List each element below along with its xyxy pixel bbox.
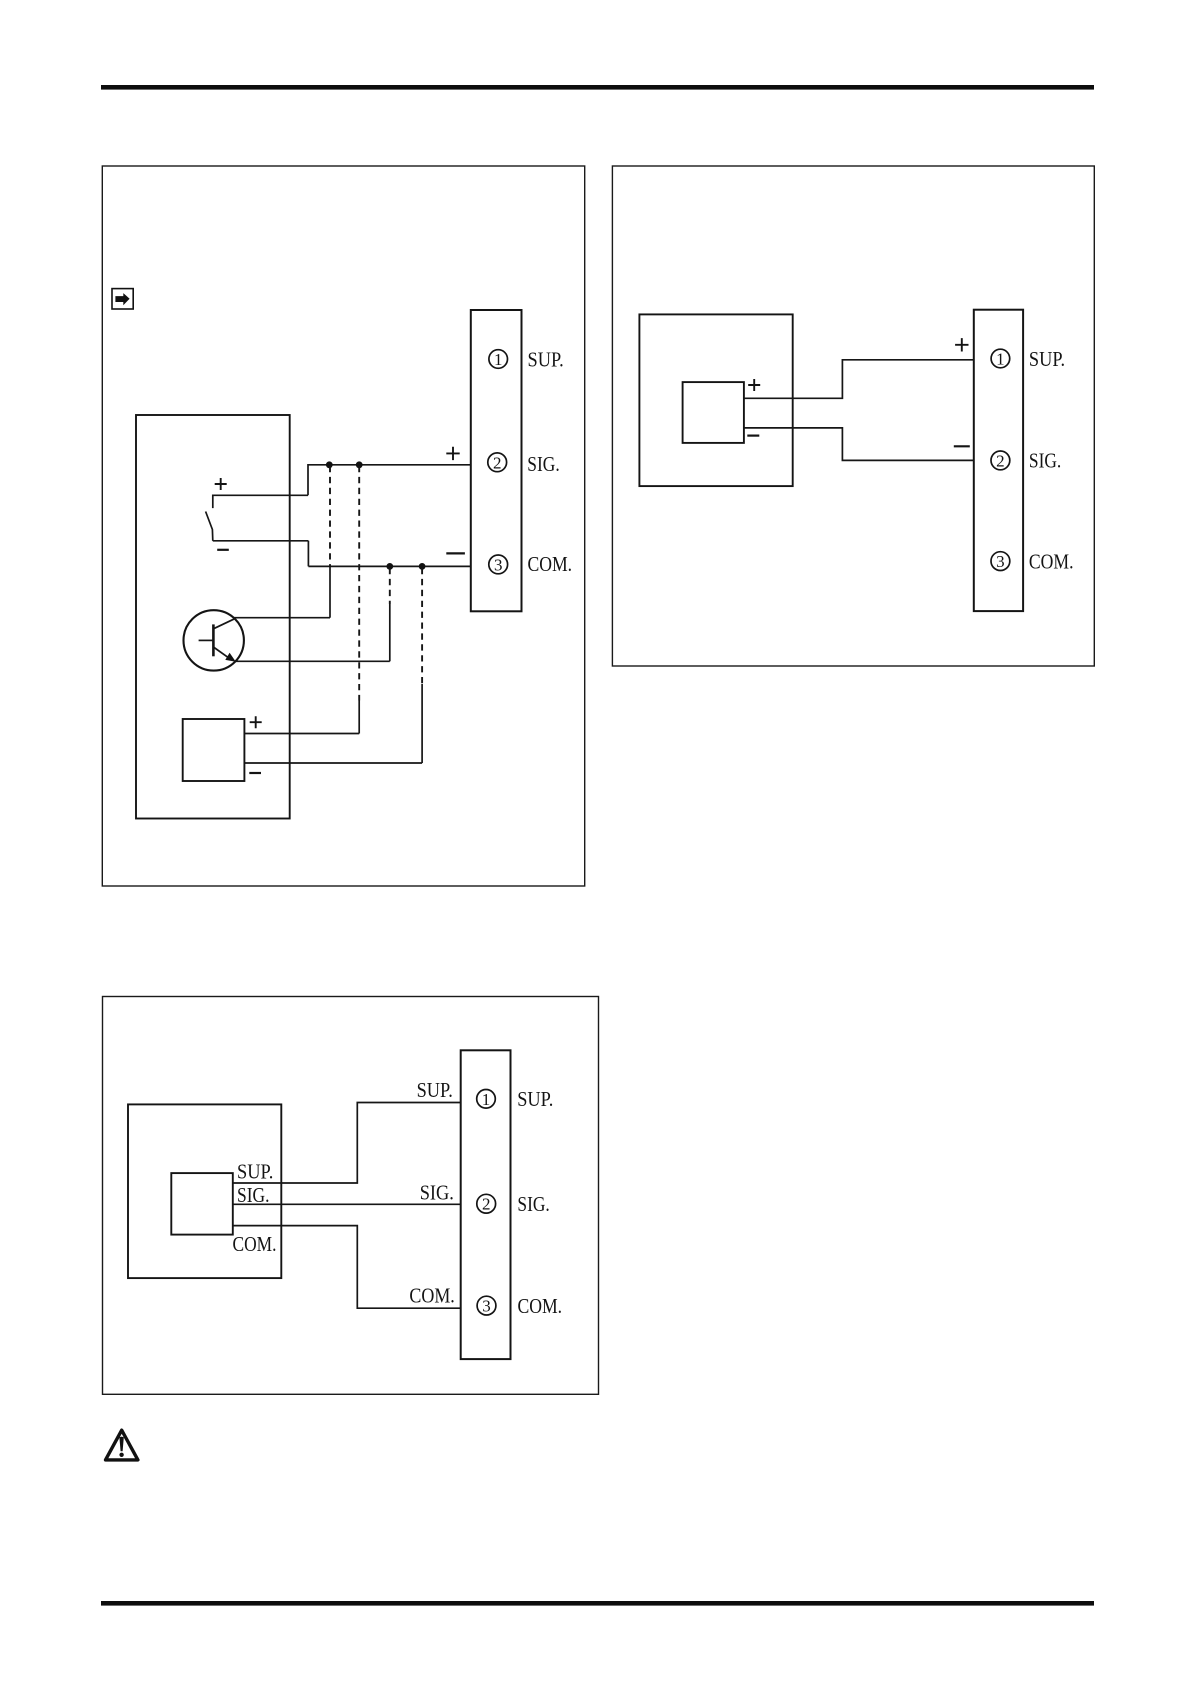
svg-text:SUP.: SUP.	[517, 1087, 553, 1111]
bottom rule	[101, 1601, 1094, 1606]
terminal 2 circled	[991, 451, 1010, 470]
warning triangle icon	[106, 1430, 138, 1460]
wire: SIG line to terminal 2	[308, 465, 471, 496]
svg-text:3: 3	[494, 555, 503, 574]
top rule	[101, 85, 1094, 90]
plus sign at terminal 1	[955, 338, 968, 351]
svg-text:1: 1	[494, 350, 503, 369]
figure frame: 2-wire connection diagram box	[102, 166, 584, 886]
wire: source - lead	[244, 762, 422, 764]
terminal block TB2	[974, 310, 1023, 611]
svg-text:COM.: COM.	[409, 1284, 454, 1308]
terminal 1 circled	[477, 1090, 496, 1109]
svg-text:SUP.: SUP.	[237, 1160, 273, 1184]
svg-text:SIG.: SIG.	[527, 452, 559, 476]
node junction dot B	[356, 461, 363, 468]
transmitter element square	[683, 382, 744, 443]
terminal 2 circled	[488, 453, 507, 472]
wire: SIG to terminal 2	[233, 1203, 461, 1205]
wire: collector riser	[329, 566, 331, 617]
voltage source B1	[183, 719, 245, 781]
svg-text:2: 2	[996, 451, 1005, 470]
terminal block TB1	[471, 310, 522, 611]
switch plus sign	[215, 478, 227, 490]
wire: collector to riser	[234, 617, 330, 619]
terminal 3 circled	[477, 1296, 496, 1315]
wire: element + to terminal 1	[744, 360, 974, 399]
terminal 3 circled	[991, 552, 1010, 571]
svg-text:SUP.: SUP.	[417, 1078, 453, 1102]
wire: source minus riser	[421, 684, 423, 763]
transmitter outline box	[136, 415, 290, 819]
terminal 1 circled	[991, 349, 1010, 368]
wire: emitter to riser	[235, 660, 390, 662]
wire: switch + to vertical	[213, 495, 308, 508]
wire: element - to terminal 2	[744, 428, 974, 461]
wire: SUP to terminal 1	[233, 1103, 461, 1184]
wire: COM to terminal 3	[233, 1226, 461, 1309]
svg-text:COM.: COM.	[518, 1294, 563, 1318]
element plus sign	[748, 379, 760, 391]
wire: COM line to terminal 3	[308, 541, 470, 567]
transmitter outer box	[639, 314, 792, 486]
wire: source plus riser	[358, 701, 360, 734]
svg-text:3: 3	[996, 552, 1005, 571]
source plus sign	[250, 716, 262, 728]
transmitter outer box	[128, 1104, 281, 1278]
dashed wire: COM to emitter	[389, 568, 391, 604]
svg-text:1: 1	[996, 350, 1005, 369]
svg-text:2: 2	[482, 1195, 491, 1214]
svg-text:SUP.: SUP.	[528, 347, 564, 371]
svg-text:1: 1	[482, 1090, 491, 1109]
dashed wire: COM to source minus	[421, 568, 423, 684]
svg-text:3: 3	[482, 1297, 491, 1316]
svg-text:SIG.: SIG.	[517, 1192, 549, 1216]
svg-text:COM.: COM.	[1029, 549, 1074, 573]
node junction dot D	[419, 563, 426, 570]
svg-text:SUP.: SUP.	[1029, 347, 1065, 371]
node junction dot A	[326, 461, 333, 468]
terminal 2 circled	[477, 1194, 496, 1213]
figure frame: 3-wire connection diagram box	[103, 997, 599, 1395]
svg-text:SIG.: SIG.	[1029, 449, 1061, 473]
switch blade	[206, 512, 213, 541]
minus sign at terminal 2	[954, 445, 970, 447]
terminal 3 circled	[489, 555, 508, 574]
terminal 1 circled	[489, 350, 508, 369]
note arrow icon	[112, 289, 133, 309]
minus sign at terminal 3	[446, 552, 465, 554]
wire: source + lead	[244, 733, 359, 735]
element minus sign	[747, 435, 759, 437]
wire: switch - lead	[213, 540, 309, 542]
svg-text:COM.: COM.	[528, 552, 573, 576]
source minus sign	[249, 772, 261, 774]
svg-text:2: 2	[493, 453, 502, 472]
plus sign at terminal 2	[446, 447, 459, 460]
dashed wire: SIG to collector	[329, 466, 331, 566]
dashed wire: SIG to source plus	[358, 466, 360, 701]
transmitter element square	[171, 1173, 233, 1235]
figure frame: 4-20mA output diagram box	[612, 166, 1094, 666]
node junction dot C	[386, 563, 393, 570]
svg-text:SIG.: SIG.	[237, 1183, 270, 1207]
transistor Q1	[184, 610, 244, 670]
svg-text:SIG.: SIG.	[420, 1181, 454, 1205]
wire: emitter riser	[389, 604, 391, 661]
switch minus sign	[217, 549, 229, 551]
svg-text:COM.: COM.	[233, 1232, 277, 1256]
terminal block TB3	[461, 1050, 511, 1359]
